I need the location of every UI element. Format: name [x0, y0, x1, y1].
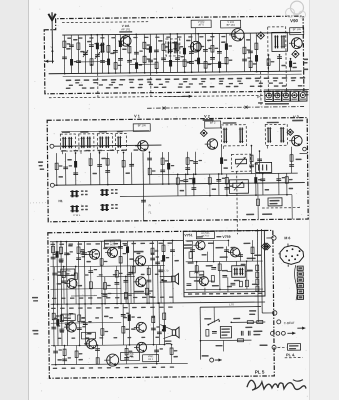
- wire: [243, 33, 245, 71]
- wire: [83, 241, 86, 303]
- wire: [156, 345, 158, 364]
- transistor V708: [107, 354, 119, 366]
- capacitor C1324: [129, 163, 134, 165]
- wire: [101, 304, 103, 345]
- svg-text:AF 1: AF 1: [148, 358, 154, 361]
- wire: [211, 34, 213, 72]
- svg-text:P:: P:: [257, 95, 260, 99]
- resistor R2228: [220, 157, 223, 164]
- wire: [262, 174, 264, 195]
- capacitor C2926: [289, 164, 294, 166]
- transistor V706: [66, 322, 76, 332]
- capacitor C842: [82, 252, 87, 254]
- transistor label V102: [191, 20, 211, 28]
- bottom right small box block2: [268, 198, 282, 206]
- resistor R1042: [103, 283, 106, 290]
- capacitor C1528: [151, 327, 156, 329]
- module extra labels: [197, 236, 203, 237]
- label BF195: [290, 28, 304, 35]
- resistor R525: [51, 246, 54, 253]
- wire: [100, 241, 103, 303]
- resistor R918: [89, 159, 92, 166]
- dash line between block1 and block2 right half: [147, 107, 304, 109]
- resistor R2004: [197, 44, 200, 51]
- resistor R522: [52, 313, 55, 320]
- resistor R630: [62, 271, 65, 278]
- capacitor C752: [186, 283, 191, 285]
- svg-text:L7D: L7D: [164, 270, 169, 273]
- capacitor C1932: [189, 61, 194, 63]
- wire: [249, 33, 251, 71]
- wire: [126, 241, 129, 303]
- resistor R568: [56, 319, 59, 326]
- capacitor C2212: [217, 50, 222, 52]
- resistor R750: [75, 351, 78, 358]
- capacitor C1572: [155, 261, 160, 263]
- wires right edge block2: [300, 153, 308, 155]
- resistor R967: [96, 358, 99, 365]
- capacitor C787: [76, 257, 81, 259]
- dashed mech link from volume pot down: [236, 171, 239, 234]
- capacitor C608: [59, 328, 64, 330]
- capacitor C900: [88, 270, 93, 272]
- svg-text:V707: V707: [85, 333, 91, 336]
- svg-text:PL 4.: PL 4.: [286, 353, 295, 357]
- wire: [96, 35, 98, 73]
- transistor V104: [291, 38, 302, 49]
- wire: [130, 152, 132, 184]
- capacitor C1962: [193, 161, 198, 163]
- capacitor C1224: [121, 313, 126, 315]
- cut text right edge: [304, 59, 309, 61]
- resistor R2878: [285, 177, 288, 184]
- capacitor C1040: [100, 60, 105, 62]
- resistor R1258: [125, 348, 128, 355]
- module extra wires: [236, 261, 238, 265]
- capacitor C787: [77, 327, 82, 329]
- transistor V102: [190, 41, 201, 52]
- wire: [63, 267, 65, 304]
- wire: [160, 281, 172, 283]
- wire: [197, 34, 199, 72]
- transistor label V705: [61, 314, 75, 321]
- resistor R1528: [151, 248, 154, 255]
- resistor R1868: [183, 48, 186, 55]
- speaker terminal dots: [161, 279, 163, 281]
- resistor R1226: [122, 326, 125, 333]
- transistor V101: [121, 36, 132, 47]
- wire: [56, 242, 59, 304]
- wire: [186, 152, 188, 174]
- svg-text:V 1: V 1: [134, 114, 140, 118]
- wire: [176, 34, 178, 72]
- capacitor C608: [59, 258, 64, 260]
- resistor R1018: [101, 329, 104, 336]
- capacitor C2630: [260, 178, 265, 180]
- block2 rail right mid: [150, 173, 298, 175]
- wire: [162, 241, 165, 303]
- resistor R1635: [162, 245, 165, 252]
- wire: [290, 59, 292, 71]
- capacitor C1528: [150, 257, 155, 259]
- transistor V702: [90, 249, 100, 259]
- wire: [61, 304, 63, 345]
- capacitor C2070: [203, 49, 208, 51]
- module bottom pin row: [184, 291, 265, 294]
- wire: [125, 276, 127, 303]
- module junction dots: [213, 261, 215, 263]
- IF transformer F6: [265, 124, 287, 145]
- wire: [97, 345, 99, 364]
- block1 top rail: [62, 33, 301, 36]
- FM tuning gang dashed box: [268, 27, 287, 94]
- wire: [107, 153, 109, 185]
- wire: [160, 324, 172, 329]
- block3 inner rail lower: [51, 345, 165, 346]
- svg-text:AF 101: AF 101: [121, 27, 131, 31]
- resistor R1708: [170, 348, 173, 355]
- labels outside block3 left border: [32, 297, 38, 299]
- resistor R572: [55, 163, 58, 170]
- wire: [156, 241, 159, 303]
- wire: [122, 152, 124, 184]
- resistor R1860: [183, 60, 186, 67]
- wire: [130, 63, 157, 65]
- capacitor C1257: [124, 356, 129, 358]
- block3 mid-upper short rail: [50, 288, 120, 291]
- block2 rail lower right: [120, 195, 292, 197]
- wire: [142, 152, 145, 220]
- resistor R938: [90, 59, 93, 66]
- svg-text:BF 195: BF 195: [293, 28, 302, 31]
- resistor R738: [70, 59, 73, 66]
- wire: [163, 303, 165, 344]
- resistor R604: [60, 315, 63, 322]
- wire: [169, 34, 171, 72]
- wire: [183, 34, 185, 72]
- capacitor C2818: [277, 56, 282, 58]
- faint dotted line left of border: [30, 202, 48, 204]
- module right column resistors: [256, 265, 259, 271]
- wire: [204, 34, 206, 72]
- capacitor C2526: [249, 164, 254, 166]
- capacitor C662: [64, 252, 69, 254]
- capacitor C771: [247, 331, 249, 336]
- transistor V103: [232, 29, 245, 42]
- capacitor C1888: [185, 167, 190, 169]
- resistor R2284: [225, 43, 228, 50]
- ratio det coil 2: [281, 35, 283, 48]
- wire along border: [272, 240, 275, 310]
- diamond node D101: [257, 32, 264, 39]
- wire: [291, 195, 293, 219]
- capacitor C1250: [123, 279, 128, 281]
- wire: [132, 241, 135, 303]
- block2 long rail: [54, 183, 304, 186]
- resistor R1276: [126, 246, 129, 253]
- capacitor C754: [238, 254, 243, 256]
- capacitor C1508: [147, 157, 152, 159]
- wire: [128, 303, 130, 344]
- diamond node D102: [292, 51, 299, 58]
- module tiny labels: [186, 240, 192, 241]
- resistor R786: [77, 247, 80, 254]
- wire: [143, 34, 145, 72]
- tone box right of volume pot: [256, 162, 272, 172]
- wire: [76, 345, 78, 364]
- capacitor C1932: [189, 51, 194, 53]
- transistor V705: [136, 277, 146, 287]
- terminal X1: [272, 236, 276, 240]
- resistor R2146: [211, 46, 214, 53]
- capacitor C662: [65, 322, 70, 324]
- capacitor C934: [89, 44, 94, 46]
- FM input filter can: [166, 39, 180, 56]
- resistor R755: [218, 264, 221, 271]
- resistor R1788: [176, 178, 179, 185]
- resistor R1526: [152, 316, 155, 323]
- wire: [171, 344, 173, 363]
- wire: [278, 55, 280, 71]
- wire: [213, 307, 215, 322]
- switch contact group 1: [71, 190, 73, 197]
- resistor R2568: [254, 177, 257, 184]
- resistor R752: [74, 273, 77, 280]
- capacitor C756: [222, 274, 227, 276]
- block1 dash-dot border with antenna notch: [44, 16, 304, 94]
- resistor R1635: [163, 325, 166, 332]
- transistor V751: [196, 241, 205, 250]
- capacitor C2278: [224, 186, 229, 188]
- resistor R758: [245, 280, 248, 287]
- capacitor C2790: [276, 178, 281, 180]
- wire: [63, 35, 65, 73]
- wire: [193, 174, 195, 195]
- capacitor C1310: [127, 59, 132, 61]
- switch contact group 2: [101, 189, 103, 196]
- svg-text:V701: V701: [65, 270, 71, 273]
- resistor R2586: [255, 55, 258, 62]
- resistor R992: [96, 43, 99, 50]
- svg-text:U W L: U W L: [73, 213, 81, 217]
- resistor R2008: [197, 58, 200, 65]
- wire: [75, 266, 77, 303]
- switch lever: [208, 319, 219, 325]
- wire: [290, 147, 292, 173]
- resistor R1508: [148, 168, 151, 175]
- svg-text:V759: V759: [222, 235, 230, 239]
- C-BEAT terminal row: [277, 320, 281, 324]
- capacitor C1520: [148, 59, 153, 61]
- resistor R2288: [225, 57, 228, 64]
- wire: [220, 146, 222, 174]
- svg-text:7L: 7L: [148, 210, 152, 214]
- transistor V709: [136, 322, 146, 332]
- wire: [90, 266, 92, 303]
- wire: [250, 146, 252, 174]
- wire: [161, 152, 163, 184]
- transistor label V707: [81, 332, 95, 339]
- resistor R752: [189, 252, 192, 259]
- capacitor C666: [62, 56, 67, 58]
- wire: [255, 174, 257, 195]
- resistor R1582: [155, 62, 158, 69]
- PL4 terminal row: [272, 345, 276, 349]
- wire: [278, 173, 280, 194]
- resistor R1466: [143, 56, 146, 63]
- resistor R2922: [289, 61, 292, 68]
- resistor R756: [211, 276, 214, 283]
- wire: [70, 35, 72, 73]
- transistor V3: [292, 135, 303, 146]
- svg-text:BC 30: BC 30: [127, 356, 135, 359]
- wire: [130, 266, 132, 303]
- resistor R606: [59, 247, 62, 254]
- labels near bottom border right: [246, 214, 254, 216]
- wire: [79, 61, 109, 63]
- capacitor C542: [52, 272, 57, 274]
- transistor label V951: [143, 355, 159, 362]
- resistor R1638: [161, 158, 164, 165]
- capacitor C666: [63, 166, 68, 168]
- antenna: [51, 21, 53, 63]
- driver transformer box: [232, 266, 246, 278]
- resistor R2526: [250, 155, 253, 162]
- block3 top rail: [50, 240, 183, 241]
- resistor R660: [63, 41, 66, 48]
- wire: [146, 282, 148, 303]
- wire: [222, 340, 224, 351]
- transistor V752: [199, 276, 208, 285]
- inner dashed top segment: [62, 21, 148, 24]
- resistor R757: [239, 281, 242, 287]
- svg-text:V90: V90: [290, 18, 298, 23]
- wire: [90, 35, 92, 73]
- block1 bottom rail: [49, 71, 302, 74]
- wire: [75, 153, 77, 185]
- resistor R1468: [145, 288, 148, 295]
- capacitor C800: [76, 60, 81, 62]
- wire: [101, 35, 103, 73]
- resistor R753: [195, 266, 198, 273]
- wire: [255, 33, 257, 71]
- wire: [160, 275, 172, 277]
- wire top corner to terminal: [266, 237, 271, 239]
- label V752: [190, 271, 204, 277]
- capacitor C2522: [248, 50, 253, 52]
- capacitor C770: [240, 331, 242, 336]
- block3 inner rail upper: [50, 266, 164, 267]
- transistor label V703: [104, 240, 120, 247]
- arrow under block1 right: [165, 95, 187, 97]
- resistor R1633: [163, 313, 166, 320]
- volume potentiometer dashed box: [232, 154, 251, 171]
- wire: [54, 267, 56, 304]
- resistor R1382: [135, 62, 138, 69]
- wire: [122, 303, 124, 344]
- capacitor C751: [190, 249, 195, 251]
- mechanical link dashed line under block1: [49, 95, 301, 98]
- svg-text:V705: V705: [65, 315, 71, 318]
- diamond node D760: [264, 243, 271, 250]
- wire: [65, 242, 68, 304]
- transistor label V708: [121, 352, 140, 360]
- comb strip brace: [294, 265, 297, 300]
- loudspeaker LS1: [172, 276, 175, 282]
- resistor R1206: [119, 256, 122, 263]
- capacitor C2460: [242, 58, 247, 60]
- capacitor C1658: [161, 57, 166, 59]
- stamp smudge top right: [290, 1, 303, 14]
- capacitor C772: [212, 331, 217, 333]
- wire: [148, 266, 150, 303]
- capacitor C762: [73, 172, 78, 174]
- wire: [231, 321, 265, 323]
- svg-text:PL 5: PL 5: [255, 370, 265, 375]
- resistor R1108: [107, 59, 110, 66]
- label BF under V3: [292, 120, 303, 122]
- wire: [155, 34, 157, 72]
- capacitor C1162: [114, 282, 119, 284]
- transistor V704: [136, 256, 146, 266]
- svg-text:V 3: V 3: [293, 115, 299, 119]
- IF transformer F1: [60, 134, 75, 151]
- wires to terminals right: [256, 229, 259, 322]
- resistor R1526: [149, 46, 152, 53]
- capacitor C1798: [175, 57, 180, 59]
- IF transformer F3: [97, 134, 112, 151]
- capacitor C630: [61, 280, 66, 282]
- resistor R2584: [255, 43, 258, 50]
- capacitor C2148: [210, 57, 215, 59]
- transistor V759: [230, 248, 239, 257]
- capacitor C753: [224, 249, 229, 251]
- svg-text:C-BEAT: C-BEAT: [284, 321, 295, 325]
- wire: [286, 173, 288, 194]
- component value labels rows block1: [66, 80, 72, 82]
- wire: [53, 304, 55, 345]
- wire: [171, 240, 174, 302]
- wire: [90, 153, 92, 185]
- capacitor C755: [211, 267, 216, 269]
- wire: [126, 345, 128, 364]
- resistor R1693: [167, 163, 170, 170]
- module inner rails: [185, 239, 228, 241]
- resistor R1488: [147, 268, 150, 275]
- wire: [226, 174, 228, 195]
- wire: [195, 28, 197, 41]
- labels outside block2 left border: [38, 161, 43, 163]
- svg-text:Y: Y: [50, 45, 52, 49]
- resistor R1654: [162, 44, 165, 51]
- capacitor C250: [141, 199, 146, 201]
- transistor V703: [107, 248, 117, 258]
- switch contact group 4: [102, 204, 104, 211]
- wire: [78, 304, 80, 345]
- capacitor C734: [69, 44, 74, 46]
- coil L1042: [100, 43, 102, 53]
- wire: [225, 33, 227, 71]
- tuning gang dashed verticals: [150, 73, 152, 97]
- resistor R1172: [114, 63, 117, 70]
- resistor R2468: [243, 47, 246, 54]
- diamond node D751: [261, 243, 268, 250]
- wires inside module: [212, 241, 214, 262]
- scan noise specks: [155, 223, 156, 224]
- block3 central hbranches: [97, 275, 135, 277]
- transistor V1: [138, 141, 149, 152]
- wire: [267, 55, 269, 71]
